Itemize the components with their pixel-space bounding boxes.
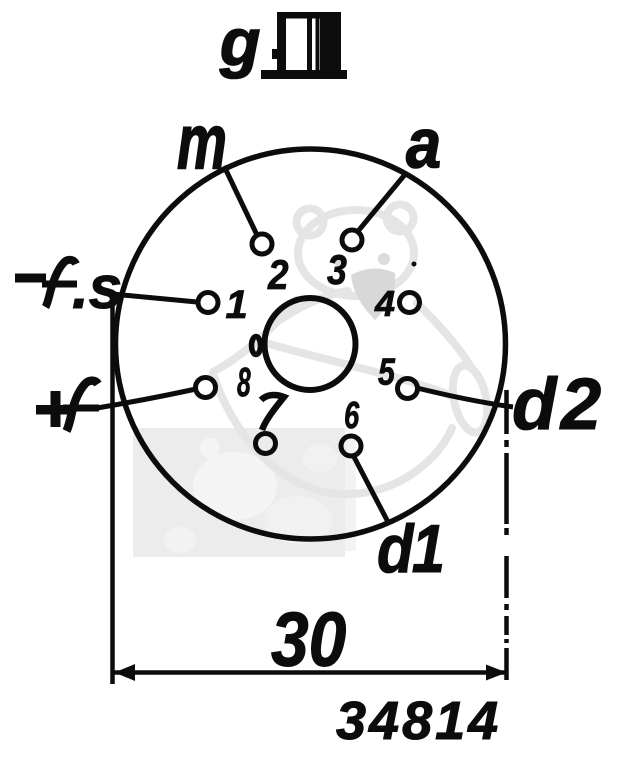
- pin number 2: [267, 252, 288, 299]
- pin number 4: [374, 283, 395, 324]
- pin 8: [196, 378, 216, 398]
- label a: [406, 105, 441, 183]
- pin number 3: [327, 247, 347, 293]
- svg-text:8: 8: [237, 360, 251, 406]
- label -f.s letter f: [42, 260, 77, 307]
- wire +f to pin 8: [97, 389, 196, 408]
- center spigot hole: [265, 298, 356, 390]
- label -f.s text .s: [72, 254, 122, 321]
- label +f plus: [36, 391, 74, 427]
- watermark overlay (multiplied over ink like scan): [133, 205, 493, 558]
- key notch 0: [252, 337, 261, 355]
- pin number 1: [226, 283, 248, 327]
- top cap symbol: [261, 12, 347, 79]
- svg-text:d1: d1: [377, 510, 443, 586]
- svg-text:2: 2: [267, 252, 288, 299]
- dimension value 30: [271, 597, 346, 683]
- label m: [177, 98, 227, 185]
- svg-text:1: 1: [226, 283, 248, 327]
- drawing number 34814: [336, 691, 501, 751]
- wire a to pin 3: [359, 172, 407, 230]
- wire pin 5 to d2: [417, 388, 513, 407]
- dimension arrow right: [486, 665, 507, 681]
- svg-text:30: 30: [271, 597, 346, 683]
- pin 4: [400, 293, 420, 313]
- wire -f.s to pin 1: [112, 294, 197, 302]
- svg-text:6: 6: [344, 395, 360, 437]
- svg-text:34814: 34814: [336, 691, 501, 751]
- pin number 5: [378, 351, 396, 393]
- svg-text:3: 3: [327, 247, 347, 293]
- label d2: [512, 364, 605, 445]
- pin 6: [341, 436, 361, 456]
- pin number 8: [237, 360, 251, 406]
- label -f.s minus: [15, 274, 46, 283]
- dimension line: [113, 670, 506, 675]
- svg-text:a: a: [406, 105, 441, 183]
- pin number 6: [344, 395, 360, 437]
- pin 1: [198, 293, 218, 313]
- pin 3: [342, 230, 362, 250]
- watermark photo patch bottom-left: [133, 428, 356, 557]
- ink speck: [412, 262, 417, 267]
- dimension arrow left: [115, 664, 136, 681]
- pin 2: [252, 234, 272, 254]
- wire pin 6 to d1: [353, 455, 388, 522]
- svg-text:g: g: [219, 5, 260, 79]
- pin number 7: [261, 395, 284, 430]
- svg-text:d2: d2: [512, 364, 605, 445]
- label +f letter f: [63, 381, 99, 431]
- pin 7: [256, 434, 276, 454]
- wire m to pin 2: [224, 166, 257, 235]
- tube base outline circle: [116, 149, 506, 539]
- dimension extension line right dash-dot: [504, 390, 509, 680]
- watermark bear logo: [213, 205, 493, 495]
- svg-text:m: m: [177, 98, 227, 185]
- pin 5: [398, 379, 418, 399]
- label d1: [377, 510, 443, 586]
- dimension extension line left: [110, 292, 115, 684]
